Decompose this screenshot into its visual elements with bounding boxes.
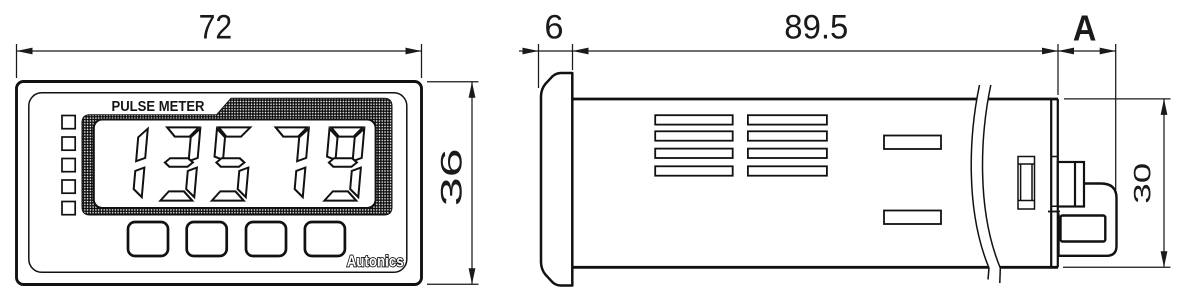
terminal block divider [1074, 162, 1076, 207]
7-segment digit 5 [211, 127, 252, 200]
break line band [971, 85, 1000, 283]
rear edge ticks [1051, 157, 1058, 207]
front view outer case [17, 82, 422, 285]
LED indicator squares [62, 116, 75, 215]
dimension 72 extension lines [17, 44, 422, 78]
7-segment digit 3 [160, 127, 200, 200]
terminal screw [1018, 157, 1035, 210]
terminal hook inner window [1061, 216, 1106, 242]
side view front bezel [541, 73, 572, 286]
svg-text:89.5: 89.5 [784, 9, 848, 47]
svg-text:A: A [1073, 7, 1097, 48]
7-segment digit 1 [133, 129, 148, 197]
break line curve 1 [971, 85, 989, 280]
svg-text:30: 30 [1130, 163, 1157, 204]
LCD display window [94, 120, 376, 209]
dimension 30 arrows [1161, 99, 1168, 115]
dimension 36 extension lines [427, 82, 479, 285]
terminal block [1058, 162, 1084, 207]
side slots right pair [884, 136, 941, 225]
terminal hook outer [1059, 184, 1117, 256]
front panel dotted faceplate [82, 98, 392, 215]
svg-text:72: 72 [199, 8, 233, 46]
svg-text:Autonics: Autonics [347, 254, 404, 271]
break line curve 2 [983, 85, 1001, 283]
side view body outline [572, 99, 1058, 267]
dimension 72 line [17, 50, 422, 52]
dimension 30 line [1163, 99, 1165, 267]
dimension 6 extension lines [539, 44, 573, 88]
dimension 36 line [471, 82, 473, 285]
ventilation slots [655, 115, 827, 176]
dimension 72 arrows [17, 48, 33, 55]
dimension 89.5 line [573, 50, 1059, 52]
svg-text:36: 36 [436, 148, 469, 206]
dimension 89.5 arrows [573, 48, 589, 55]
dimension 89.5 extension line [1057, 44, 1059, 95]
7-segment digit 7 [270, 127, 309, 197]
svg-text:6: 6 [544, 8, 563, 46]
terminal step line [1048, 211, 1060, 213]
side view rear edge lines [1051, 99, 1058, 267]
dimension A arrows [1058, 48, 1074, 55]
dimension 30 extension lines [1063, 99, 1171, 267]
svg-text:PULSE METER: PULSE METER [112, 99, 205, 115]
7-segment digit 9 [323, 127, 364, 200]
dimension 6 line [519, 50, 573, 52]
front bezel inner line [29, 93, 407, 272]
front buttons [128, 222, 345, 256]
dimension A line [1058, 50, 1116, 52]
dimension 36 arrows [469, 82, 476, 98]
dimension A extension line [1115, 44, 1117, 190]
dimension 6 arrow [523, 48, 539, 55]
